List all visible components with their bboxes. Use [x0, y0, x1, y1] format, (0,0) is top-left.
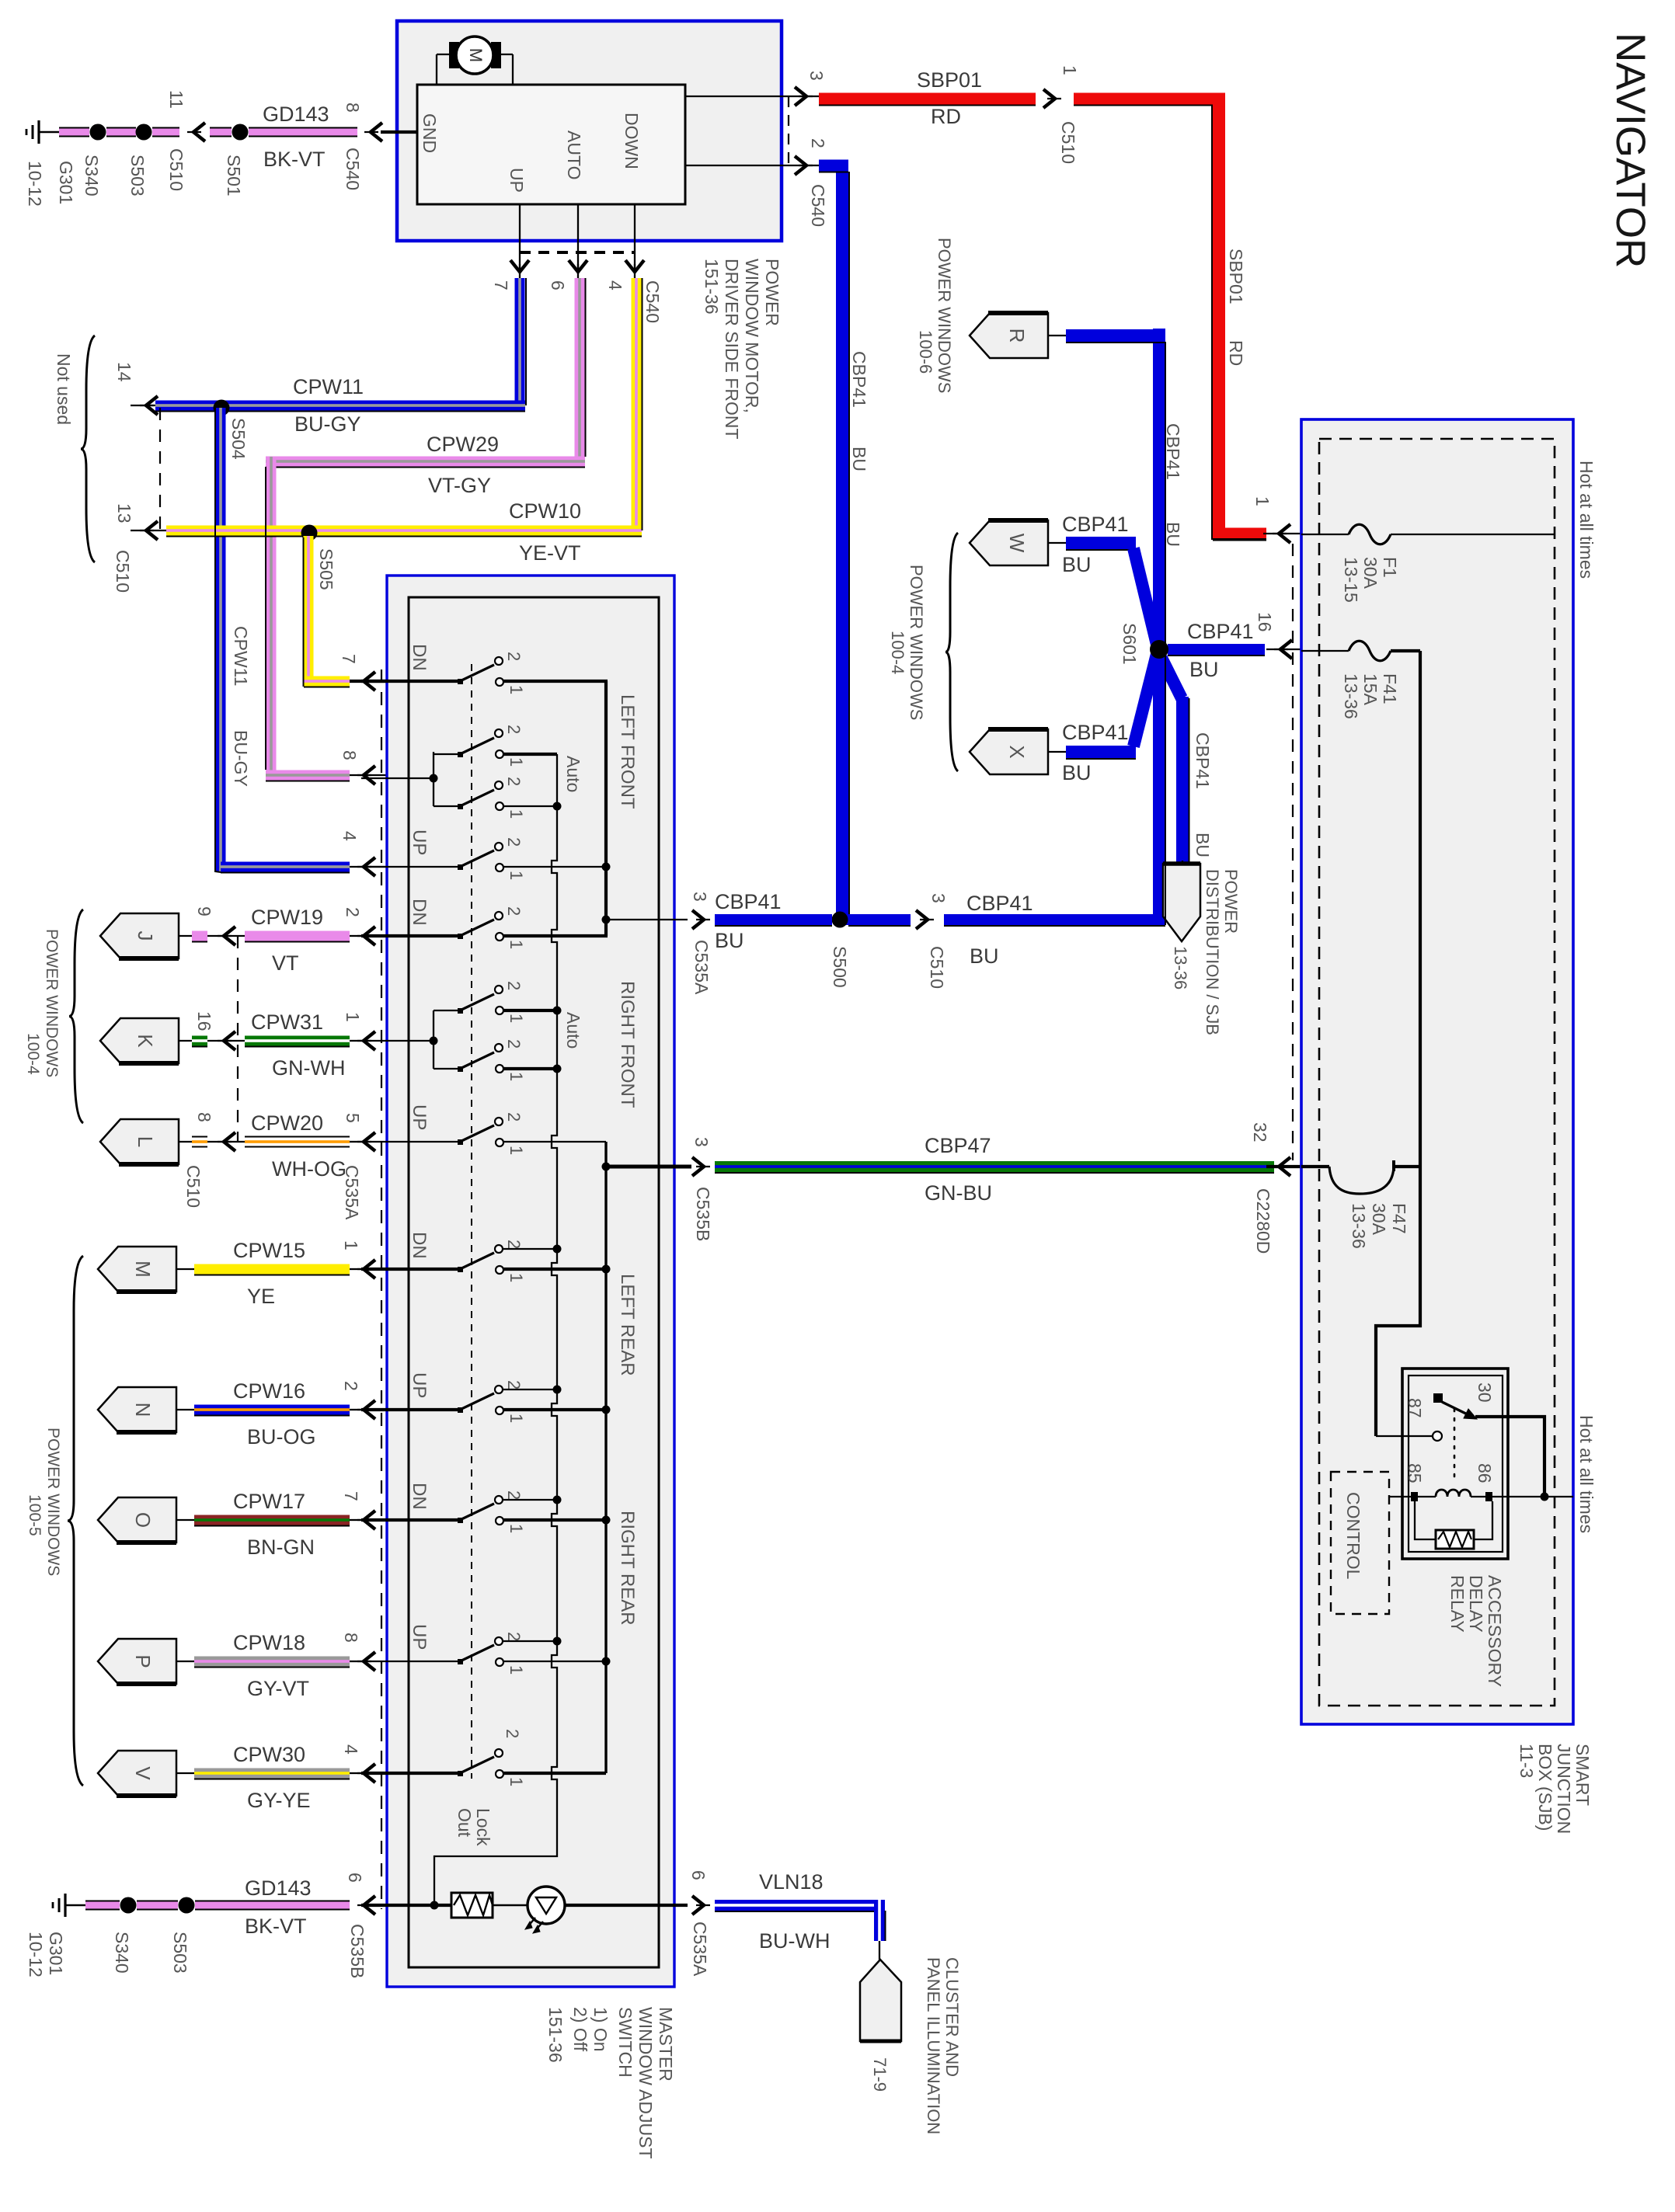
svg-text:1: 1: [507, 871, 526, 880]
svg-text:CBP41: CBP41: [1193, 732, 1213, 789]
svg-text:CPW19: CPW19: [251, 906, 323, 929]
svg-text:7: 7: [339, 654, 359, 664]
connector X: [970, 729, 1048, 774]
svg-text:BU: BU: [1062, 553, 1092, 576]
svg-text:16: 16: [194, 1011, 214, 1031]
svg-text:4: 4: [340, 831, 360, 841]
connector cluster and panel illumination: [860, 1960, 901, 2041]
wire VLN18 BU-WH: [715, 1900, 885, 1911]
wire CBP41 BU to SJB pin 16: [1168, 644, 1265, 655]
svg-text:J: J: [134, 931, 157, 941]
svg-text:S340: S340: [82, 155, 102, 197]
svg-text:13-36: 13-36: [1349, 1203, 1369, 1249]
wire F41 output down: [1376, 651, 1420, 1436]
wire CPW11 BU-GY drop from S504: [216, 408, 226, 872]
svg-text:Auto: Auto: [563, 756, 583, 792]
svg-text:16: 16: [1255, 612, 1275, 632]
wire CPW11 BU-GY horizontal: [155, 401, 525, 411]
svg-text:1: 1: [507, 1014, 526, 1023]
svg-text:GND: GND: [420, 113, 440, 153]
arrow pin 3: [795, 87, 806, 106]
arrow C535 pin 4: [364, 1764, 375, 1782]
svg-text:13: 13: [114, 503, 134, 523]
wire CPW18 GY-VT: [194, 1657, 350, 1667]
svg-text:BU: BU: [970, 944, 999, 968]
wire - motor UP pin drop: [519, 204, 521, 273]
svg-text:GY-YE: GY-YE: [247, 1789, 311, 1812]
svg-text:CBP41: CBP41: [1187, 620, 1254, 643]
wire CPW31 GN-WH: [245, 1036, 350, 1046]
svg-text:2: 2: [504, 1112, 524, 1122]
svg-text:BU-GY: BU-GY: [294, 412, 361, 436]
splice S504: [214, 400, 230, 416]
arrow C535A pin 2: [364, 927, 375, 945]
arrow switch pin 8: [364, 766, 375, 784]
wire CPW29 drop to switch pin 8: [266, 457, 277, 781]
svg-text:BK-VT: BK-VT: [245, 1915, 307, 1938]
wire CBP41 vertical to S601: [1153, 329, 1165, 925]
motor M1 symbol: [437, 54, 454, 55]
arrow exit C535A: [692, 910, 704, 929]
svg-text:2: 2: [504, 777, 524, 786]
svg-text:11: 11: [166, 90, 186, 109]
wire - motor pin 2 to blue CBP41: [685, 165, 819, 166]
splice S505: [301, 525, 318, 541]
switch LEFT FRONT auto pair: [361, 777, 434, 779]
svg-text:CBP41: CBP41: [715, 890, 782, 913]
svg-text:JUNCTION: JUNCTION: [1554, 1744, 1574, 1834]
svg-text:BU: BU: [715, 929, 744, 952]
svg-text:100-4: 100-4: [24, 1033, 42, 1075]
svg-text:C2280D: C2280D: [1253, 1188, 1273, 1254]
svg-text:PANEL ILLUMINATION: PANEL ILLUMINATION: [924, 1957, 943, 2134]
svg-text:F1: F1: [1380, 557, 1400, 578]
connector J: [100, 913, 179, 958]
wire CBP47 GN-BU: [715, 1161, 1274, 1172]
svg-text:BU-GY: BU-GY: [231, 730, 251, 787]
svg-text:C510: C510: [113, 550, 133, 593]
svg-text:4: 4: [605, 280, 625, 290]
wire - motor AUTO pin drop: [577, 204, 579, 273]
svg-text:6: 6: [688, 1870, 709, 1880]
svg-text:Hot at all times: Hot at all times: [1576, 1415, 1597, 1533]
wire - motor pin 3 to red SBP01: [685, 96, 819, 97]
svg-text:2: 2: [504, 725, 524, 734]
svg-text:C540: C540: [343, 148, 363, 190]
svg-text:C535B: C535B: [347, 1924, 367, 1978]
arrow pin 6: [569, 260, 587, 272]
brace power windows 100-4 left: [69, 909, 83, 1123]
svg-text:LEFT REAR: LEFT REAR: [617, 1274, 638, 1376]
svg-text:V: V: [131, 1766, 155, 1780]
fuse F1: [1301, 534, 1349, 535]
svg-text:3: 3: [691, 1137, 712, 1147]
arrow C510 pin 8: [224, 1132, 235, 1151]
svg-text:R: R: [1005, 329, 1029, 343]
svg-text:7: 7: [341, 1491, 361, 1501]
switch LEFT REAR UP row: [361, 1408, 460, 1411]
svg-text:100-4: 100-4: [888, 631, 907, 674]
svg-text:13-36: 13-36: [1171, 946, 1190, 989]
brace power windows 100-5 left: [68, 1256, 83, 1786]
svg-text:85: 85: [1405, 1463, 1425, 1483]
svg-text:RD: RD: [931, 105, 961, 128]
connector P: [98, 1639, 176, 1684]
svg-text:Hot at all times: Hot at all times: [1576, 461, 1597, 579]
svg-text:S340: S340: [112, 1932, 132, 1974]
svg-text:1: 1: [507, 1777, 526, 1786]
svg-text:UP: UP: [409, 1104, 430, 1130]
connector C535 dashed line at switch left: [381, 670, 382, 1909]
svg-text:1: 1: [343, 1012, 363, 1022]
svg-text:6: 6: [345, 1873, 365, 1883]
splice S500: [832, 912, 848, 928]
wire CPW29 VT-GY horizontal: [266, 457, 585, 467]
svg-text:2: 2: [504, 837, 524, 847]
wire CBP41 BU from R: [1066, 329, 1165, 342]
svg-text:VLN18: VLN18: [759, 1870, 824, 1894]
svg-text:CPW18: CPW18: [233, 1631, 305, 1654]
svg-text:X: X: [1005, 745, 1029, 758]
svg-text:8: 8: [340, 750, 360, 760]
svg-text:1: 1: [507, 1146, 526, 1155]
wire SBP01 RD elbow: [1074, 93, 1225, 105]
switch RIGHT FRONT auto pair: [361, 1040, 434, 1042]
relay contact 87: [1433, 1431, 1442, 1441]
svg-text:S505: S505: [316, 548, 336, 590]
bus B1 vertical: [604, 681, 608, 936]
svg-text:2) Off: 2) Off: [570, 2007, 590, 2052]
mech dashed link: [471, 664, 472, 1779]
wire CPW17 BN-GN: [194, 1515, 350, 1525]
svg-text:2: 2: [808, 138, 828, 148]
svg-text:DN: DN: [409, 1232, 430, 1259]
switch LEFT FRONT UP row: [361, 866, 460, 868]
svg-text:WH-OG: WH-OG: [272, 1157, 346, 1181]
svg-text:MASTER: MASTER: [656, 2007, 676, 2082]
relay contact 30: [1433, 1393, 1443, 1403]
arrow SJB pin 1: [1279, 524, 1290, 543]
arrow C535A pin 5: [364, 1132, 375, 1151]
svg-text:POWER: POWER: [762, 259, 782, 326]
svg-text:BOX (SJB): BOX (SJB): [1535, 1744, 1555, 1831]
svg-text:WINDOW MOTOR,: WINDOW MOTOR,: [742, 259, 762, 413]
svg-text:K: K: [134, 1034, 157, 1048]
wire CBP41 BU right from S500: [848, 914, 911, 925]
connector C540 dashes at motor bottom: [520, 251, 635, 254]
svg-text:6: 6: [548, 280, 568, 290]
arrow SJB pin 16: [1280, 640, 1292, 659]
wire SBP01 RD from motor pin 3: [819, 93, 1036, 105]
wire CPW11 to switch pin 4: [221, 862, 350, 872]
svg-text:UP: UP: [409, 1372, 430, 1398]
switch RIGHT REAR UP row: [361, 1661, 460, 1662]
svg-text:2: 2: [504, 652, 524, 661]
svg-text:1: 1: [507, 757, 526, 767]
svg-text:LEFT FRONT: LEFT FRONT: [617, 694, 638, 809]
svg-text:1: 1: [507, 1072, 526, 1081]
wire: [152, 127, 179, 137]
svg-text:Out: Out: [454, 1808, 475, 1838]
splice S503: [179, 1897, 195, 1914]
svg-text:S601: S601: [1120, 623, 1140, 665]
splice S601: [1150, 640, 1168, 659]
brace not used: [81, 336, 95, 562]
svg-text:POWER WINDOWS: POWER WINDOWS: [43, 929, 61, 1077]
auto upper term1 to V1: [503, 753, 557, 756]
component box - master window adjust switch: [387, 576, 674, 1987]
svg-text:C510: C510: [166, 148, 186, 191]
connector C510 dashes J-L: [237, 936, 239, 1142]
fuse F47: [1301, 1165, 1329, 1168]
svg-text:30A: 30A: [1360, 557, 1381, 590]
connector C540 dashes at motor right: [788, 96, 789, 165]
svg-text:CBP41: CBP41: [1062, 721, 1129, 744]
svg-text:SBP01: SBP01: [1226, 249, 1246, 304]
svg-text:DISTRIBUTION / SJB: DISTRIBUTION / SJB: [1203, 869, 1222, 1035]
wire GD143 BK-VT segment: [59, 127, 89, 137]
svg-text:GD143: GD143: [245, 1876, 312, 1900]
wire: [137, 1901, 178, 1911]
switch RIGHT FRONT DN row: [361, 934, 460, 937]
wire piece: [192, 1036, 207, 1046]
svg-text:RELAY: RELAY: [1447, 1575, 1468, 1633]
svg-text:2: 2: [504, 1380, 524, 1389]
arrow pin 4: [625, 260, 644, 272]
svg-text:1) On: 1) On: [590, 2007, 611, 2052]
splice S340: [90, 124, 106, 141]
wire CPW10 YE-VT vertical from DOWN pin: [632, 278, 642, 536]
svg-text:UP: UP: [409, 1624, 430, 1650]
wire: [106, 127, 136, 137]
svg-text:1: 1: [1252, 496, 1273, 506]
svg-text:14: 14: [114, 362, 134, 382]
svg-text:2: 2: [504, 981, 524, 990]
svg-text:BN-GN: BN-GN: [247, 1536, 315, 1559]
svg-text:1: 1: [507, 809, 526, 819]
svg-text:S504: S504: [228, 418, 249, 460]
svg-text:GN-BU: GN-BU: [925, 1181, 992, 1205]
arrow C510 pin 3: [916, 910, 928, 929]
svg-text:YE-VT: YE-VT: [519, 541, 581, 565]
arrow pin 2: [795, 156, 806, 175]
svg-text:UP: UP: [409, 829, 430, 855]
svg-text:2: 2: [504, 906, 524, 916]
wire to GND pin: [381, 130, 417, 134]
svg-text:100-6: 100-6: [916, 330, 935, 374]
svg-text:2: 2: [343, 907, 363, 917]
svg-text:F47: F47: [1389, 1203, 1409, 1234]
svg-text:ACCESSORY: ACCESSORY: [1485, 1575, 1505, 1687]
svg-text:9: 9: [194, 906, 214, 916]
component box - power window motor driver side front: [397, 21, 782, 241]
fuse F41: [1301, 650, 1349, 652]
svg-text:3: 3: [690, 892, 710, 902]
svg-text:S503: S503: [127, 155, 148, 197]
svg-text:11-3: 11-3: [1517, 1744, 1537, 1778]
svg-text:10-12: 10-12: [25, 161, 45, 207]
wire CPW29 VT-GY vertical from AUTO pin: [575, 278, 585, 467]
collector V1 vertical with hops: [434, 754, 557, 1905]
svg-text:2: 2: [504, 1039, 524, 1049]
stub: [179, 1141, 192, 1143]
svg-text:30A: 30A: [1369, 1203, 1389, 1236]
svg-text:C510: C510: [927, 946, 947, 989]
exit line to C535A pin 3: [606, 919, 688, 920]
SJB dashed inner box: [1319, 439, 1555, 1706]
svg-text:CPW15: CPW15: [233, 1239, 305, 1262]
connector L: [100, 1119, 179, 1164]
arrow C535 pin 2: [364, 1400, 375, 1419]
arrow C535B pin 6: [364, 1896, 375, 1915]
svg-text:2: 2: [504, 1632, 524, 1641]
svg-text:Not used: Not used: [54, 353, 74, 425]
wire GD143 BK-VT: [195, 1901, 350, 1911]
svg-text:DELAY: DELAY: [1466, 1575, 1486, 1633]
svg-text:2: 2: [504, 1240, 524, 1249]
connector C510 arrow pin 11: [193, 123, 205, 141]
arrow C535A pin 1: [364, 1031, 375, 1050]
wire CBP41 BU from X: [1066, 746, 1136, 758]
illumination resistor: [361, 1904, 451, 1907]
svg-text:POWER WINDOWS: POWER WINDOWS: [44, 1428, 62, 1576]
svg-text:SWITCH: SWITCH: [615, 2007, 636, 2078]
svg-text:1: 1: [507, 685, 526, 694]
splice S340: [120, 1897, 137, 1914]
svg-text:71-9: 71-9: [870, 2057, 890, 2092]
svg-text:BK-VT: BK-VT: [263, 148, 326, 171]
wire lamp to pin 6 right: [565, 1904, 688, 1907]
wire into SJB pin 1: [1263, 533, 1301, 534]
wire CPW20 WH-OG: [245, 1136, 350, 1148]
svg-text:1: 1: [507, 1414, 526, 1423]
stub: [179, 935, 192, 937]
switch lock out row: [361, 1772, 460, 1775]
switch inner box: [409, 597, 659, 1967]
connector R: [970, 313, 1048, 358]
arrow C535 pin 7: [364, 1511, 375, 1529]
svg-text:3: 3: [928, 893, 949, 903]
term2 line: [503, 1248, 557, 1250]
illumination lamp: [493, 1904, 528, 1907]
svg-text:BU: BU: [1189, 658, 1219, 681]
svg-text:C540: C540: [642, 280, 663, 323]
svg-text:1: 1: [507, 940, 526, 949]
svg-text:W: W: [1005, 534, 1029, 553]
wire CPW19 VT: [245, 931, 350, 941]
svg-text:DN: DN: [409, 1483, 430, 1510]
stub: [176, 1519, 194, 1521]
svg-text:UP: UP: [507, 168, 527, 193]
connector C510 arrow pin 1: [1043, 89, 1055, 108]
switch RIGHT FRONT UP row: [361, 1141, 460, 1143]
svg-text:POWER WINDOWS: POWER WINDOWS: [907, 565, 926, 720]
connector power distribution / SJB: [1163, 864, 1200, 941]
wire CBP41 BU diagonal to power distribution: [1161, 658, 1182, 698]
wire CBP41 BU vertical from motor pin 2: [836, 165, 848, 925]
auto lower term1 to V1: [503, 805, 557, 807]
svg-text:13-15: 13-15: [1341, 557, 1361, 603]
connector K: [100, 1018, 179, 1063]
svg-text:DOWN: DOWN: [622, 113, 642, 169]
svg-text:C510: C510: [1058, 121, 1078, 164]
svg-text:CLUSTER AND: CLUSTER AND: [942, 1957, 962, 2077]
svg-text:13-36: 13-36: [1341, 673, 1361, 719]
ground G301 bottom: [64, 1894, 66, 1917]
arrow exit pin 6: [692, 1896, 704, 1915]
switch LEFT REAR DN row: [361, 1268, 460, 1271]
svg-text:GN-WH: GN-WH: [272, 1056, 345, 1080]
svg-text:C535A: C535A: [342, 1165, 362, 1220]
brace power windows 100-4 right: [945, 533, 958, 771]
svg-text:10-12: 10-12: [26, 1932, 46, 1977]
svg-text:P: P: [131, 1654, 155, 1668]
splice S503: [136, 124, 152, 141]
svg-text:CBP41: CBP41: [966, 892, 1033, 915]
svg-text:CPW16: CPW16: [233, 1379, 305, 1403]
wire CPW10 drop from S505 to switch pin 7: [304, 536, 314, 682]
svg-text:GY-VT: GY-VT: [247, 1677, 309, 1700]
svg-text:8: 8: [343, 103, 363, 113]
svg-text:AUTO: AUTO: [564, 130, 584, 179]
wire GD143 BK-VT: [85, 1901, 120, 1911]
svg-text:Lock: Lock: [473, 1808, 493, 1846]
svg-text:87: 87: [1405, 1398, 1425, 1418]
arrow C510 pin 9: [224, 927, 235, 945]
svg-text:8: 8: [341, 1633, 361, 1643]
wire CBP41 BU from W: [1066, 537, 1136, 549]
relay accessory delay: [1402, 1369, 1508, 1559]
wire piece: [192, 931, 207, 941]
arrow switch pin 7: [364, 672, 375, 690]
svg-text:C540: C540: [808, 184, 828, 227]
svg-text:SMART: SMART: [1572, 1744, 1593, 1806]
arrow pin 13: [146, 521, 158, 540]
svg-text:POWER WINDOWS: POWER WINDOWS: [935, 238, 954, 393]
wire GD143 BK-VT: [249, 127, 357, 137]
wire - motor DOWN pin drop: [634, 204, 636, 273]
svg-text:M: M: [466, 48, 486, 62]
svg-text:C535A: C535A: [690, 1922, 710, 1977]
svg-text:CPW11: CPW11: [293, 375, 364, 398]
connector W: [970, 520, 1048, 565]
splice S501: [232, 124, 249, 141]
wire term1 to bus: [503, 680, 608, 683]
svg-text:C510: C510: [183, 1165, 204, 1208]
svg-text:CONTROL: CONTROL: [1343, 1492, 1363, 1580]
switch LEFT FRONT DN row: [361, 680, 460, 683]
svg-text:CBP47: CBP47: [925, 1134, 991, 1157]
svg-text:VT: VT: [272, 951, 299, 975]
svg-text:G301: G301: [56, 161, 76, 204]
svg-text:GD143: GD143: [263, 103, 329, 126]
svg-text:2: 2: [341, 1381, 361, 1391]
wire outline lines: [1212, 105, 1266, 539]
component box - smart junction box SJB: [1301, 419, 1573, 1724]
arrow SJB pin 32: [1279, 1157, 1290, 1176]
arrow pin 14: [146, 396, 158, 415]
motor inner box: [417, 85, 685, 204]
arrow C510 pin 16: [224, 1031, 235, 1050]
arrow switch pin 4: [364, 857, 375, 876]
svg-text:C535B: C535B: [693, 1187, 713, 1241]
wire piece: [192, 1136, 207, 1148]
exit line CBP47 pin 3: [606, 1165, 691, 1169]
svg-text:CPW31: CPW31: [251, 1010, 323, 1034]
stub: [176, 1268, 194, 1270]
svg-text:BU-WH: BU-WH: [759, 1929, 830, 1953]
svg-text:5: 5: [343, 1113, 363, 1123]
